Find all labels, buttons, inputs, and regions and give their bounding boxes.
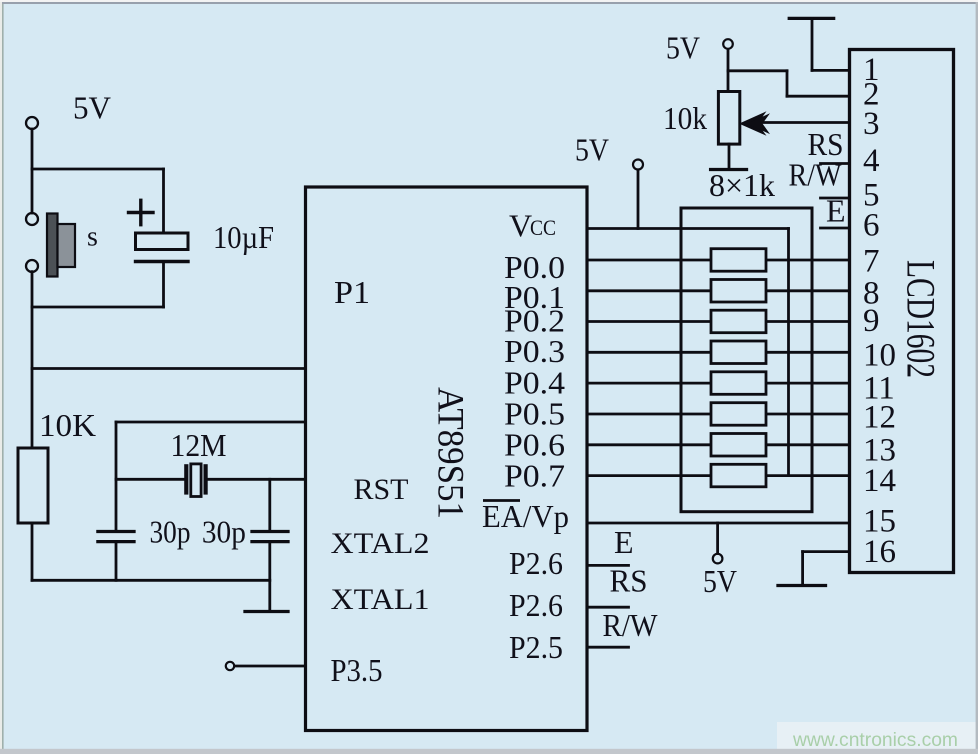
wire P0.2 to LCD pin9 — [587, 320, 850, 323]
resistor RN1-2 — [711, 280, 766, 303]
wire — [115, 542, 118, 581]
wire P0.0 to LCD pin7 — [587, 259, 850, 262]
svg-text:s: s — [87, 222, 98, 253]
svg-text:P2.6: P2.6 — [509, 587, 563, 623]
svg-text:5V: 5V — [575, 132, 609, 168]
wire LCD pin1 — [812, 69, 850, 72]
resistor RN1-7 — [711, 434, 766, 457]
svg-text:12M: 12M — [171, 427, 227, 463]
svg-text:P3.5: P3.5 — [331, 652, 383, 688]
resistor network RN1 box 8x1k — [681, 208, 812, 512]
svg-text:E: E — [826, 193, 846, 229]
potentiometer RP1 10k body — [718, 92, 739, 145]
svg-text:8×1k: 8×1k — [709, 167, 775, 203]
wire — [31, 523, 34, 580]
wire — [268, 542, 271, 612]
wire stub P2.5 R/W — [587, 646, 629, 649]
wire stub LCD pin5 R/W / overline of E — [821, 197, 850, 200]
wire P0.5 to LCD pin12 — [587, 413, 850, 416]
terminal 5V bottom — [713, 554, 723, 564]
svg-text:XTAL1: XTAL1 — [331, 583, 430, 616]
terminal 5V mid — [633, 160, 643, 170]
svg-text:5V: 5V — [666, 30, 700, 66]
svg-text:P2.6: P2.6 — [509, 545, 563, 581]
wire LCD pin3 wiper — [757, 121, 850, 124]
wire — [31, 272, 34, 448]
svg-text:www.cntronics.com: www.cntronics.com — [792, 730, 958, 751]
ground bar bottom left — [245, 610, 288, 613]
wire — [31, 129, 34, 213]
resistor RN1-6 — [711, 403, 766, 426]
svg-text:LCD1602: LCD1602 — [899, 260, 944, 378]
wire — [728, 144, 731, 168]
svg-text:RST: RST — [354, 473, 409, 506]
svg-text:6: 6 — [863, 207, 880, 243]
pushbutton S contact top — [26, 213, 38, 225]
svg-text:CC: CC — [530, 215, 556, 240]
terminal P3.5 — [226, 662, 234, 670]
resistor RN1-5 — [711, 372, 766, 395]
wire — [162, 169, 165, 233]
svg-text:EA/Vp: EA/Vp — [482, 498, 569, 534]
wire — [268, 479, 271, 531]
wire — [801, 552, 804, 586]
capacitor C1 plus sign — [129, 200, 154, 224]
resistor RN1-1 — [711, 249, 766, 272]
wire P0.3 to LCD pin10 — [587, 351, 850, 354]
svg-text:7: 7 — [863, 244, 880, 280]
frame right — [976, 2, 978, 754]
wire stub LCD pin6 E — [821, 227, 850, 230]
wire XTAL2 net to MCU — [116, 421, 306, 424]
pushbutton S actuator cap — [58, 224, 76, 267]
wire — [115, 422, 118, 532]
potentiometer RP1 wiper arrow — [739, 111, 770, 136]
svg-text:AT89S51: AT89S51 — [430, 387, 471, 519]
wire P0.6 to LCD pin13 — [587, 443, 850, 446]
svg-text:V: V — [509, 208, 532, 244]
crystal Y1 left electrode — [184, 466, 188, 492]
svg-text:30p: 30p — [150, 514, 191, 550]
resistor RN1-3 — [711, 310, 766, 333]
pushbutton S contact bottom — [26, 260, 38, 272]
wire stub P2.6 E — [587, 564, 629, 567]
svg-text:9: 9 — [863, 303, 880, 339]
terminal 5V left — [26, 117, 38, 129]
wire P0.1 to LCD pin8 — [587, 289, 850, 292]
svg-text:10: 10 — [863, 338, 896, 374]
svg-text:RS: RS — [610, 563, 648, 599]
wire LCD pin16 — [803, 550, 850, 553]
capacitor C1 10uF top plate — [136, 233, 189, 250]
wire — [786, 71, 789, 96]
svg-text:R/W: R/W — [789, 157, 843, 193]
wire ground rail — [32, 579, 270, 582]
wire — [32, 168, 164, 171]
svg-text:R/W: R/W — [603, 607, 659, 643]
frame bottom — [0, 749, 978, 754]
wire — [32, 306, 164, 309]
LCD1602 box — [850, 50, 954, 573]
wire stub P2.6 RS — [587, 606, 629, 609]
wire EA/Vp to LCD pin15 — [587, 522, 850, 525]
resistor RN1-8 — [711, 464, 766, 487]
crystal Y1 body — [191, 464, 201, 497]
wire — [637, 170, 640, 229]
wire stub LCD pin4 RS / overline of W — [821, 162, 850, 165]
ground bar top right — [789, 17, 834, 20]
wire RST net to MCU — [32, 367, 306, 370]
svg-text:10k: 10k — [663, 100, 707, 136]
svg-text:16: 16 — [863, 534, 896, 570]
svg-text:30p: 30p — [202, 514, 246, 550]
svg-text:10µF: 10µF — [213, 219, 274, 255]
capacitor C1 10uF bottom plate — [136, 260, 189, 263]
svg-text:P0.7: P0.7 — [504, 458, 565, 494]
svg-text:E: E — [614, 524, 634, 560]
ground bar under LCD — [778, 584, 826, 587]
pushbutton S actuator bar — [47, 214, 58, 277]
wire — [116, 478, 184, 481]
wire LCD pin2 — [787, 95, 850, 98]
crystal Y1 right electrode — [204, 466, 208, 492]
wire 5V branch to LCD pin2 — [728, 69, 787, 72]
watermark background strip — [777, 722, 978, 751]
svg-text:3: 3 — [863, 106, 880, 142]
overline of EA — [483, 499, 520, 502]
frame top — [0, 0, 978, 2]
capacitor C3 30p top plate — [252, 530, 288, 533]
svg-text:4: 4 — [863, 143, 880, 179]
resistor RN1-4 — [711, 341, 766, 364]
capacitor C2 30p bottom plate — [98, 540, 134, 543]
svg-text:P2.5: P2.5 — [509, 629, 563, 665]
wire VCC net — [587, 227, 789, 230]
svg-text:P1: P1 — [334, 274, 370, 310]
wire P0.7 to LCD pin14 — [587, 474, 850, 477]
capacitor C3 30p bottom plate — [252, 540, 288, 543]
terminal 5V top right — [723, 39, 733, 49]
wire — [162, 262, 165, 308]
wire — [811, 18, 814, 70]
resistor R1 10K — [18, 448, 48, 523]
svg-text:XTAL2: XTAL2 — [331, 527, 430, 560]
svg-text:5V: 5V — [73, 90, 111, 126]
svg-text:14: 14 — [863, 463, 896, 499]
frame left — [0, 2, 2, 754]
wire XTAL1 net to MCU — [208, 478, 306, 481]
wire VCC vertical — [787, 229, 790, 476]
svg-text:10K: 10K — [39, 407, 96, 443]
IC U1 AT89S51 box — [306, 187, 588, 731]
wire — [727, 49, 730, 91]
ground bar under potentiometer — [711, 168, 747, 171]
wire P0.4 to LCD pin11 — [587, 382, 850, 385]
wire P3.5 to MCU — [235, 665, 306, 668]
capacitor C2 30p top plate — [98, 530, 134, 533]
svg-text:12: 12 — [863, 400, 896, 436]
svg-text:5V: 5V — [703, 563, 737, 599]
wire 5V to EA net — [716, 523, 719, 553]
